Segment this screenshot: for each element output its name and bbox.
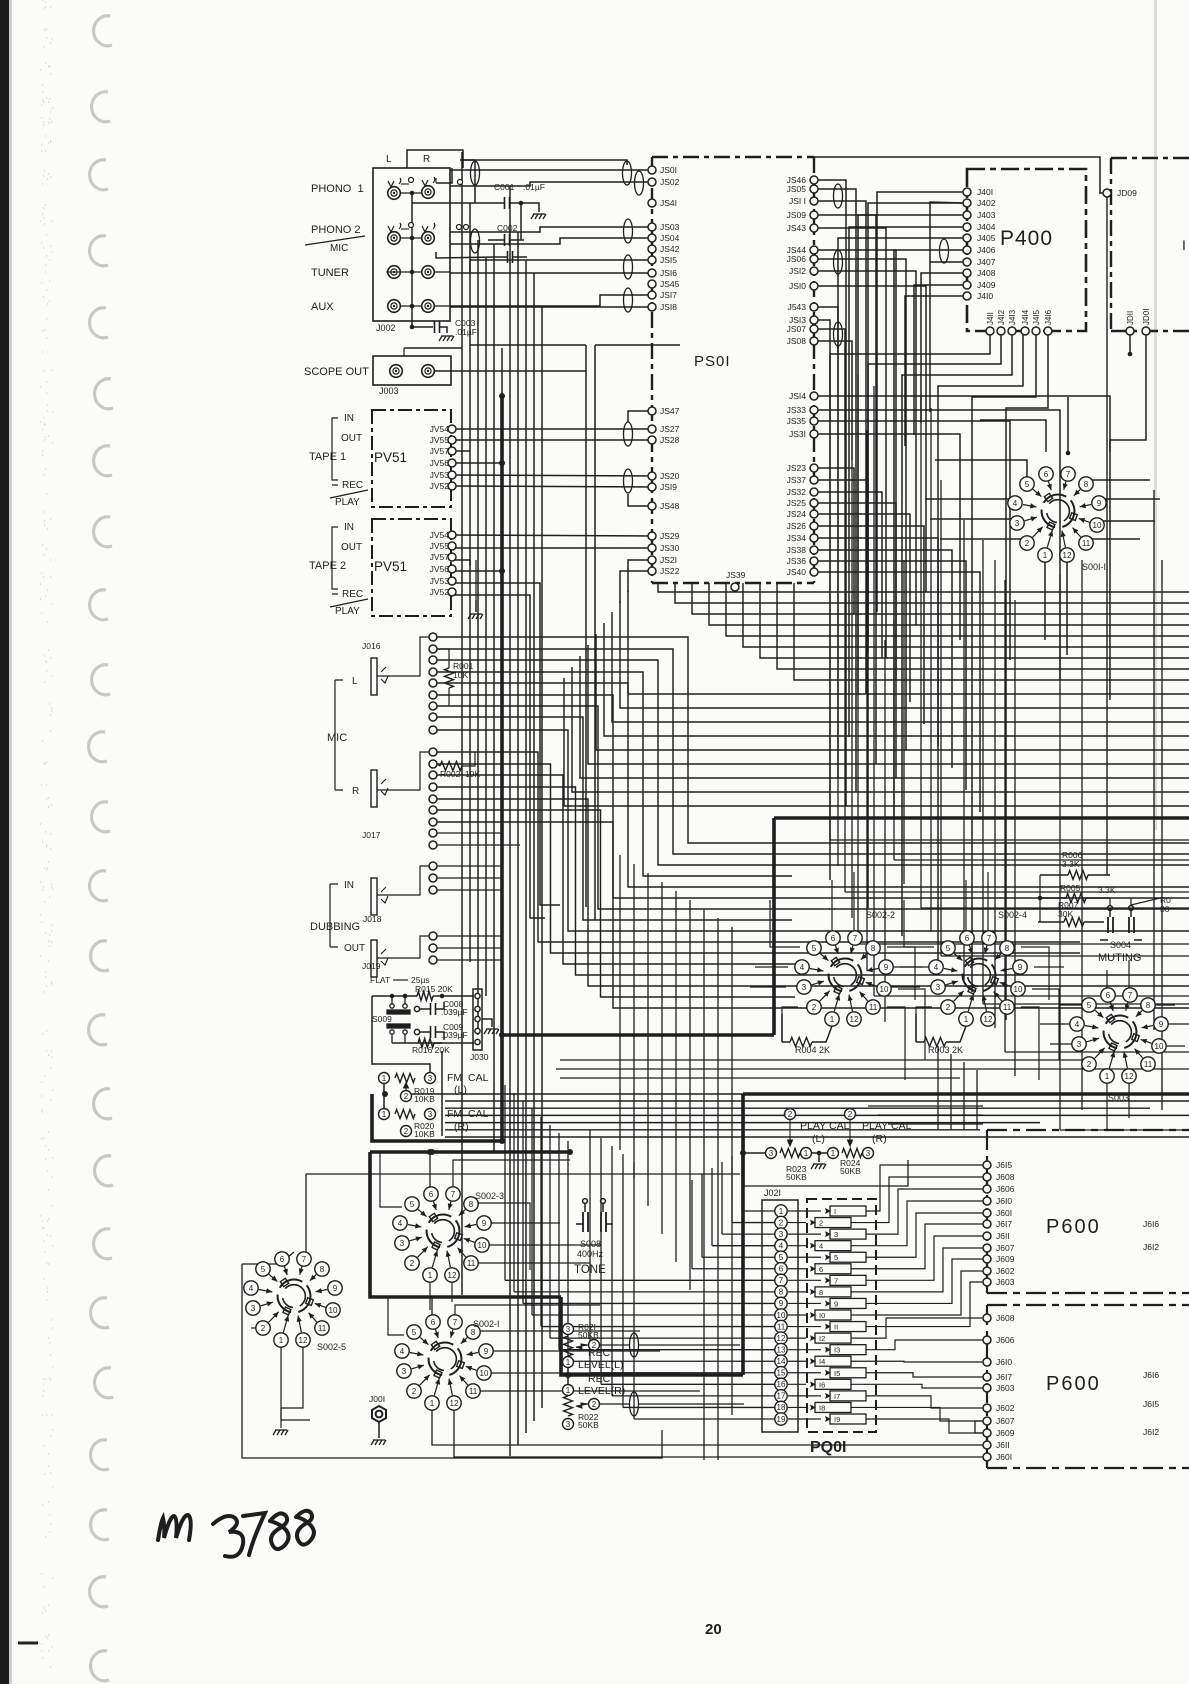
rotary switch S002-1 xyxy=(395,1315,500,1410)
PLAY CAL L wiper arrow xyxy=(788,1120,793,1146)
svg-text:4: 4 xyxy=(1075,1020,1080,1029)
svg-text:J60I: J60I xyxy=(996,1452,1012,1462)
wire S003 pin4 xyxy=(1040,1023,1077,1025)
wire mid vertical xyxy=(963,520,965,980)
switch S008 xyxy=(576,1199,613,1232)
resistor R016 xyxy=(418,1039,434,1048)
pin J408 xyxy=(963,269,971,277)
pin dubbing in contact xyxy=(429,874,437,882)
wire R001 top xyxy=(437,649,449,668)
resistor block PQ01 13 xyxy=(830,1345,866,1355)
wire S002-3 pin1 down xyxy=(429,1275,431,1310)
wire J41x drop-left xyxy=(1006,335,1048,1020)
wire PQ01 feed riser xyxy=(721,1162,723,1234)
svg-text:JDII: JDII xyxy=(1126,311,1135,325)
pin JS47 xyxy=(648,407,656,415)
pin JSI8 xyxy=(648,303,656,311)
wire to tape ground xyxy=(475,600,477,612)
pin JD09 xyxy=(1103,189,1111,197)
pin JV57 xyxy=(448,553,456,561)
pin J409 xyxy=(963,281,971,289)
svg-text:L: L xyxy=(386,154,392,165)
wire PQ01 feed riser xyxy=(567,1141,569,1361)
ground J001 xyxy=(371,1440,386,1445)
wire R022 bottom xyxy=(567,1418,569,1430)
jack J019 xyxy=(371,940,388,977)
svg-text:9: 9 xyxy=(333,1284,338,1293)
junction phono1 xyxy=(410,191,415,196)
capacitor C001 xyxy=(505,197,510,209)
wire JD09 stub xyxy=(1099,192,1103,194)
wire tuner L stub xyxy=(386,271,401,273)
pin mic R contact xyxy=(429,818,437,826)
svg-text:JS45: JS45 xyxy=(660,279,680,289)
svg-text:11: 11 xyxy=(1082,539,1091,548)
wire dropper xyxy=(717,918,719,1460)
wire R001 bottom xyxy=(448,688,450,706)
wire J40x elbow xyxy=(894,250,963,820)
wire phono2 sw xyxy=(401,228,409,230)
wire sw pin6 up xyxy=(965,880,967,931)
wire PQ01 to P600 upper xyxy=(851,1271,983,1315)
wire JS47 elbow xyxy=(628,411,652,422)
shield J406 xyxy=(940,239,949,263)
wire P600 riser xyxy=(950,1054,952,1130)
capacitor C003 xyxy=(435,321,440,333)
resistor R015 xyxy=(417,992,433,1001)
wire to right edge xyxy=(921,907,1189,909)
svg-text:C002: C002 xyxy=(497,223,518,233)
svg-text:JS26: JS26 xyxy=(787,521,807,531)
wire S001 pin9 xyxy=(1099,498,1160,500)
svg-text:JS25: JS25 xyxy=(787,498,807,508)
pin mic L contact xyxy=(429,668,437,676)
contact circle JS03 a xyxy=(457,225,462,230)
wire S002-3 pin11 xyxy=(473,1262,590,1264)
wire R015 left xyxy=(372,995,417,997)
pin J6II upper xyxy=(983,1232,991,1240)
wire staircase B xyxy=(612,612,1189,722)
pin C008 in xyxy=(414,1006,419,1011)
wire staircase A xyxy=(743,583,1189,647)
wire S002-1 pin12 to J601 xyxy=(454,1403,983,1457)
arrow PQ01 7 xyxy=(821,1277,831,1283)
wire dropper xyxy=(731,927,733,1415)
shield phono2 xyxy=(471,229,480,253)
wire R016 rail xyxy=(392,1042,442,1044)
junction xyxy=(499,460,505,466)
svg-text:J017: J017 xyxy=(362,830,381,840)
pin JS45 xyxy=(648,280,656,288)
connector P400 outline xyxy=(967,169,1086,331)
wire to ground xyxy=(818,1153,820,1162)
wire PQ01 feed xyxy=(590,1372,775,1374)
svg-text:MIC: MIC xyxy=(330,243,348,254)
wire R007 left xyxy=(1038,921,1064,923)
pin J543 xyxy=(810,303,818,311)
potentiometer R022 xyxy=(564,1396,573,1416)
pin mic R contact xyxy=(429,841,437,849)
pin JS43 xyxy=(810,224,818,232)
wire to right edge xyxy=(830,839,1189,841)
rotary switch S002-5 xyxy=(244,1252,346,1352)
svg-text:JV52: JV52 xyxy=(430,587,450,597)
svg-text:(R): (R) xyxy=(872,1133,887,1145)
svg-text:1: 1 xyxy=(804,1149,809,1158)
svg-text:8: 8 xyxy=(320,1265,325,1274)
svg-text:12: 12 xyxy=(450,1399,459,1408)
svg-text:8: 8 xyxy=(471,1328,476,1337)
wire R005 right xyxy=(1086,897,1110,899)
svg-text:R005: R005 xyxy=(1060,883,1081,893)
resistor block PQ01 6 xyxy=(815,1264,851,1274)
pin JS26 xyxy=(810,522,818,530)
svg-text:J543: J543 xyxy=(788,302,807,312)
jack J018 xyxy=(371,878,388,915)
svg-text:I3: I3 xyxy=(834,1346,840,1355)
wire L/R lid xyxy=(407,150,463,168)
wire thick REC LEVEL feed xyxy=(561,1297,743,1375)
svg-text:JS32: JS32 xyxy=(787,487,807,497)
wire JS15 riser xyxy=(469,260,471,272)
resistor R006 xyxy=(1068,871,1088,880)
wire phono2 R down xyxy=(436,252,496,258)
wire JS row right xyxy=(818,396,1110,700)
resistor block PQ01 9 xyxy=(830,1298,866,1308)
wire phono1 R up xyxy=(436,168,452,183)
svg-text:JD09: JD09 xyxy=(1117,188,1137,198)
svg-text:TAPE 2: TAPE 2 xyxy=(309,560,346,572)
wire JV56-2 to bus xyxy=(452,570,502,572)
jack PHONO1 R xyxy=(422,177,435,198)
svg-text:2: 2 xyxy=(848,1110,853,1119)
jack PHONO1 L xyxy=(388,178,401,199)
svg-text:J4I0: J4I0 xyxy=(977,291,993,301)
wire J021-14 to block xyxy=(788,1360,806,1362)
jack J016 xyxy=(371,658,388,695)
wire cap b in xyxy=(496,256,507,258)
pin J021 16 xyxy=(775,1378,787,1390)
wire sw pin3 xyxy=(884,986,920,988)
svg-text:8: 8 xyxy=(779,1288,784,1297)
pin J021 5 xyxy=(775,1251,787,1263)
wire JS row right xyxy=(818,434,960,640)
svg-text:10: 10 xyxy=(1093,521,1102,530)
wire S001 pin5 xyxy=(935,460,1027,478)
svg-text:4: 4 xyxy=(779,1241,784,1250)
svg-text:IN: IN xyxy=(344,880,354,891)
connector J021 outline xyxy=(762,1200,798,1432)
wire sw pin5 xyxy=(904,900,934,947)
wire S001 pin2 xyxy=(940,538,1027,540)
wire PQ01 to P600 upper xyxy=(851,1177,983,1223)
wire S003 pin12 drop xyxy=(1128,1076,1130,1118)
wire JS13 xyxy=(818,320,830,420)
arrow PQ01 13 xyxy=(821,1347,831,1353)
svg-text:12: 12 xyxy=(984,1015,993,1024)
connector J001 xyxy=(372,1406,386,1422)
svg-text:J407: J407 xyxy=(977,257,996,267)
pin JS0I xyxy=(648,166,656,174)
ground S002-5 xyxy=(273,1430,288,1435)
svg-text:2: 2 xyxy=(404,1092,409,1101)
pin J021 9 xyxy=(775,1297,787,1309)
pin JS46 xyxy=(810,176,818,184)
pin J021 10 xyxy=(775,1309,787,1321)
wire S001 pin1 down xyxy=(1044,561,1046,640)
scope out block J003 xyxy=(373,356,451,385)
wire tape gnd link xyxy=(475,560,477,600)
connector right block outline xyxy=(1111,158,1189,331)
svg-text:JSI2: JSI2 xyxy=(789,266,806,276)
svg-text:J4I3: J4I3 xyxy=(1008,309,1017,325)
connector PS01 outline xyxy=(652,157,814,583)
handwritten m 3788 xyxy=(158,1511,314,1557)
wire staircase B xyxy=(620,601,1189,708)
wire tuner R to JS16 xyxy=(450,272,652,274)
pin JV55 xyxy=(448,436,456,444)
pin J60I lower xyxy=(983,1453,991,1461)
resistor block PQ01 11 xyxy=(830,1322,866,1332)
jack PHONO2 R xyxy=(422,223,435,244)
wire staircase B xyxy=(628,590,1189,694)
wire vertical bus xyxy=(493,244,495,1152)
pin mic L contact xyxy=(429,713,437,721)
svg-text:2: 2 xyxy=(404,1127,409,1136)
wire PQ01 feed riser xyxy=(711,1168,713,1246)
wire JV53 to JS20 xyxy=(452,475,652,476)
junction xyxy=(499,1138,505,1144)
wire J021-7 to block xyxy=(788,1279,821,1281)
pin J6I7 lower xyxy=(983,1373,991,1381)
arrow PQ01 16 xyxy=(806,1381,816,1387)
pin JSI5 xyxy=(648,256,656,264)
wire PQ01 to P600 lower xyxy=(851,1384,983,1388)
wire thick PQ feed vertical xyxy=(741,1094,745,1375)
pin JS30 xyxy=(648,544,656,552)
wire dropper xyxy=(647,873,649,1206)
svg-text:JS20: JS20 xyxy=(660,471,680,481)
pin J021 3 xyxy=(775,1228,787,1240)
wire S002-3 pin10 xyxy=(484,1244,600,1246)
svg-text:R: R xyxy=(423,154,430,165)
shield phono1 xyxy=(471,161,480,185)
wire J41x drop-left xyxy=(972,335,1036,992)
wire stub xyxy=(435,178,437,183)
binder holes xyxy=(89,16,113,1681)
wire mic R to mid band xyxy=(437,775,795,964)
svg-text:J606: J606 xyxy=(996,1335,1015,1345)
pin J030 xyxy=(475,1028,480,1033)
svg-text:9: 9 xyxy=(1159,1020,1164,1029)
wire J021-10 to block xyxy=(788,1314,806,1316)
wire JS to bus xyxy=(818,201,866,694)
pin J405 xyxy=(963,234,971,242)
svg-text:PQ0I: PQ0I xyxy=(810,1439,846,1456)
pin R024 1 xyxy=(828,1148,839,1159)
pin J021 18 xyxy=(775,1401,787,1413)
wire P600 upper feed xyxy=(868,1105,983,1107)
wire to right edge xyxy=(941,955,1189,957)
wire PQ01 feed xyxy=(702,1256,775,1258)
wire thick FM CAL loop xyxy=(372,1094,502,1141)
svg-text:S004: S004 xyxy=(1110,940,1131,950)
svg-text:7: 7 xyxy=(987,934,992,943)
svg-text:2: 2 xyxy=(812,1003,817,1012)
pin J021 8 xyxy=(775,1286,787,1298)
wire vertical 595 xyxy=(594,345,596,920)
pin PLAY CAL L 2 xyxy=(785,1109,796,1120)
wire J019 tip xyxy=(377,936,429,958)
pin JS3I xyxy=(810,430,818,438)
wire S003 pin7 xyxy=(1128,960,1130,995)
pin J030 xyxy=(475,993,480,998)
wire R005-R006 left xyxy=(1039,875,1041,898)
wire staircase A xyxy=(692,583,1189,614)
svg-text:7: 7 xyxy=(453,1318,458,1327)
svg-text:1: 1 xyxy=(430,1399,435,1408)
shield JS07-08 xyxy=(834,322,843,346)
wire scope R out xyxy=(435,370,586,372)
arrow PQ01 4 xyxy=(806,1243,816,1249)
svg-text:JS4I: JS4I xyxy=(660,198,677,208)
junction rec level xyxy=(565,1372,571,1378)
resistor block PQ01 3 xyxy=(830,1229,866,1239)
pin JV53 xyxy=(448,471,456,479)
pin dubbing out contact xyxy=(429,956,437,964)
svg-text:JS35: JS35 xyxy=(787,416,807,426)
wire JS to bus xyxy=(818,180,846,806)
junction xyxy=(390,994,395,999)
pin J4II xyxy=(986,327,994,335)
svg-text:JV55: JV55 xyxy=(430,435,450,445)
wire S009 box left xyxy=(372,996,430,1072)
wire J607-J609 bracket xyxy=(975,1421,983,1433)
svg-text:P600: P600 xyxy=(1046,1216,1101,1238)
arrow PQ01 1 xyxy=(821,1208,831,1214)
svg-text:J019: J019 xyxy=(362,961,381,971)
wire PQ01 to P600 lower xyxy=(866,1340,983,1350)
arrow PQ01 18 xyxy=(806,1404,816,1410)
svg-text:2: 2 xyxy=(410,1259,415,1268)
wire JS row right xyxy=(818,468,854,614)
wire top rail to JD09 xyxy=(840,157,1103,193)
wire J021-19 to block xyxy=(788,1418,821,1420)
wire JS to bus xyxy=(818,215,876,764)
svg-text:20: 20 xyxy=(705,1621,722,1638)
pin J608 lower xyxy=(983,1314,991,1322)
pin JS02 xyxy=(648,178,656,186)
wire R lid down xyxy=(461,152,463,327)
svg-text:J02I: J02I xyxy=(764,1188,781,1198)
wire mic R to mid band xyxy=(437,799,1189,986)
wire mid vertical xyxy=(940,480,942,956)
ground C001 xyxy=(531,214,546,219)
wire staircase B xyxy=(596,634,1189,750)
junction play cal xyxy=(817,1151,822,1156)
svg-text:JSI8: JSI8 xyxy=(660,302,677,312)
svg-text:J60I: J60I xyxy=(996,1208,1012,1218)
pin J606 upper xyxy=(983,1185,991,1193)
pin mic L contact xyxy=(429,633,437,641)
wire mid vertical xyxy=(920,397,922,908)
wire J021-18 to block xyxy=(788,1406,806,1408)
wire row 1069 xyxy=(556,1068,1189,1070)
pin J4I5 xyxy=(1032,327,1040,335)
svg-text:3: 3 xyxy=(428,1110,433,1119)
arrow PQ01 17 xyxy=(821,1393,831,1399)
svg-text:10KB: 10KB xyxy=(414,1094,435,1104)
svg-text:8: 8 xyxy=(1005,944,1010,953)
wire PQ01 feed xyxy=(568,1360,775,1362)
arrow PQ01 3 xyxy=(821,1231,831,1237)
svg-text:JV52: JV52 xyxy=(430,481,450,491)
svg-text:.01µF: .01µF xyxy=(523,182,545,192)
rotary switch S002-4 xyxy=(929,910,1027,1026)
svg-text:6: 6 xyxy=(965,934,970,943)
svg-text:JSI0: JSI0 xyxy=(789,281,806,291)
pin J403 xyxy=(963,211,971,219)
svg-text:J6I2: J6I2 xyxy=(1143,1427,1159,1437)
pin JS22 xyxy=(648,567,656,575)
jack J017 xyxy=(371,770,388,807)
pin J4I2 xyxy=(997,327,1005,335)
svg-text:J403: J403 xyxy=(977,210,996,220)
wire sw pin4 xyxy=(889,966,922,968)
svg-text:MUTING: MUTING xyxy=(1098,952,1141,964)
wire sw pin6 up xyxy=(831,880,833,931)
wire J41x drop-left xyxy=(902,335,1012,936)
wire S001 pin6 xyxy=(980,420,1046,452)
wire dub out contact xyxy=(437,959,502,961)
svg-text:3: 3 xyxy=(428,1074,433,1083)
jack AUX L xyxy=(388,300,401,313)
svg-text:PV51: PV51 xyxy=(374,559,407,574)
wire PQ01 feed xyxy=(692,1268,775,1270)
svg-text:J6I6: J6I6 xyxy=(1143,1219,1159,1229)
wire PQ01 feed xyxy=(712,1245,775,1247)
wire right vertical 1162 xyxy=(1161,560,1163,1110)
svg-text:J409: J409 xyxy=(977,280,996,290)
wire dropper xyxy=(619,855,621,1150)
wire phono1 to JS02 xyxy=(450,182,652,186)
svg-text:J602: J602 xyxy=(996,1403,1015,1413)
svg-text:J6I7: J6I7 xyxy=(996,1372,1012,1382)
wire PQ01 feed riser xyxy=(691,1180,693,1269)
svg-text:J404: J404 xyxy=(977,222,996,232)
wire mid vertical xyxy=(893,620,895,860)
wire J017 tip xyxy=(377,752,429,790)
svg-text:15: 15 xyxy=(777,1369,786,1378)
svg-text:10: 10 xyxy=(1014,985,1023,994)
wire S001 pin7 up xyxy=(1067,397,1069,452)
pin mic L contact xyxy=(429,656,437,664)
svg-text:19: 19 xyxy=(777,1415,786,1424)
wire sw pin5 xyxy=(770,900,800,947)
pin JS04 xyxy=(648,234,656,242)
resistor block PQ01 1 xyxy=(830,1206,866,1216)
svg-text:J603: J603 xyxy=(996,1277,1015,1287)
wire J021-12 to block xyxy=(788,1337,806,1339)
wire vertical bus xyxy=(469,203,471,962)
svg-text:JS40: JS40 xyxy=(787,567,807,577)
wire dub in contact xyxy=(437,865,502,867)
svg-text:I6: I6 xyxy=(819,1380,825,1389)
wire C001 to ground xyxy=(510,203,539,212)
svg-text:S008: S008 xyxy=(580,1239,601,1249)
pin JSI9 xyxy=(648,483,656,491)
pin J608 upper xyxy=(983,1173,991,1181)
